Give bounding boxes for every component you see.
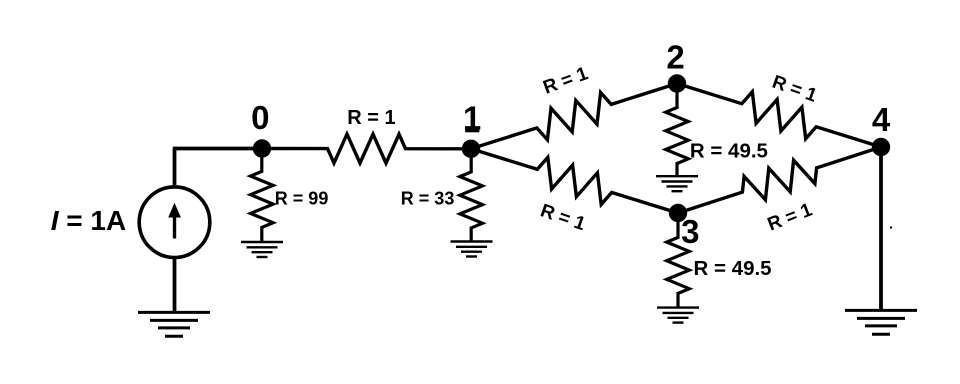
svg-text:R = 49.5: R = 49.5 (690, 139, 768, 162)
svg-text:R = 1: R = 1 (538, 200, 589, 235)
svg-text:0: 0 (251, 99, 269, 136)
ground under node 3 resistor (657, 306, 699, 308)
ground under current source (138, 311, 210, 314)
node 4 (872, 138, 890, 156)
resistor R=1 (node 2 to node 4) (677, 84, 881, 148)
resistor R=1 (node 0 to node 1) (262, 134, 471, 163)
ground under node 4 (845, 309, 917, 312)
svg-text:3: 3 (681, 213, 699, 250)
resistor R=1 (node 1 to node 3) (471, 149, 678, 213)
svg-text:R = 1: R = 1 (765, 199, 816, 235)
svg-text:4: 4 (872, 101, 891, 138)
wire source-bottom to ground (173, 257, 177, 312)
stray dot artifact (890, 227, 892, 229)
current source I1 (139, 187, 210, 258)
ground under R=33 (451, 240, 493, 242)
wire rail to node 0 (173, 147, 262, 151)
svg-text:2: 2 (666, 38, 684, 75)
svg-text:R = 49.5: R = 49.5 (694, 257, 772, 280)
node 3 (669, 204, 687, 222)
svg-text:R = 1: R = 1 (347, 107, 395, 129)
resistor R=49.5 (node 3 to ground) (667, 213, 690, 307)
node 0 (253, 139, 271, 157)
resistor R=49.5 (node 2 to ground) (666, 84, 689, 176)
svg-text:R = 33: R = 33 (401, 189, 455, 209)
resistor R=1 (node 1 to node 2) (471, 84, 677, 149)
node 1 (462, 140, 480, 158)
svg-text:I = 1A: I = 1A (51, 205, 126, 236)
resistor R=99 (node 0 to ground) (251, 149, 274, 242)
wire node 4 to ground (879, 147, 883, 310)
wire current source top (173, 149, 177, 187)
resistor R=33 (node 1 to ground) (460, 149, 483, 241)
svg-text:R = 99: R = 99 (275, 189, 329, 209)
ground under R=99 (241, 241, 283, 243)
ground under node 2 resistor (656, 175, 698, 177)
node 2 (668, 74, 686, 92)
svg-text:R = 1: R = 1 (541, 63, 592, 99)
resistor R=1 (node 3 to node 4) (678, 147, 881, 213)
